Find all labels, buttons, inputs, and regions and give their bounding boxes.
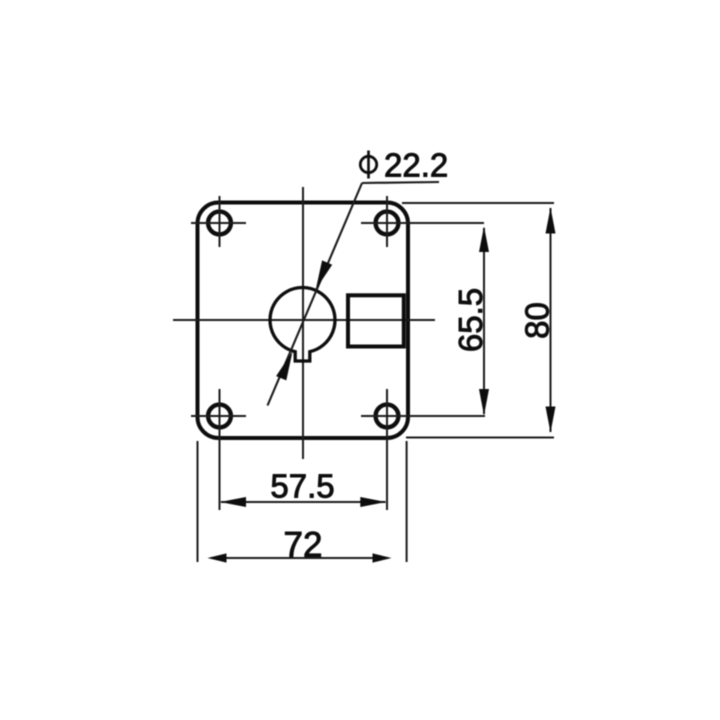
crosshair top-right + extension line for 65.5: [361, 222, 484, 224]
dimension 57.5 line: [221, 501, 386, 503]
crosshair bottom-left + extension line for 57.5: [191, 415, 246, 417]
mounting hole top-left: [208, 212, 231, 235]
dimension 72 line: [211, 557, 388, 559]
arrow 57.5 right: [360, 497, 386, 507]
dimension 80 line: [550, 208, 552, 432]
svg-text:65.5: 65.5: [452, 288, 489, 352]
extension line 72 right: [406, 441, 408, 562]
mounting hole bottom-left: [208, 405, 231, 428]
mounting hole top-right: [376, 212, 399, 235]
crosshair bottom-right + extension lines: [361, 415, 485, 417]
main hole phi 22.2 with keyway: [270, 288, 335, 361]
mounting hole bottom-right: [376, 405, 399, 428]
arrow 65.5 up: [479, 227, 489, 253]
small rectangle window: [348, 295, 404, 346]
arrow 65.5 down: [479, 389, 489, 416]
arrow 80 up: [546, 208, 556, 234]
arrowhead upper (points to circle top): [316, 260, 332, 289]
svg-text:72: 72: [284, 526, 323, 565]
svg-text:22.2: 22.2: [384, 147, 448, 184]
arrow 57.5 left: [220, 497, 246, 507]
vertical centerline: [302, 187, 304, 459]
crosshair top-left: [191, 222, 246, 224]
extension line 72 left: [197, 441, 199, 562]
dimension 65.5 line: [483, 228, 485, 414]
horizontal centerline: [173, 319, 435, 321]
leader shoulder: [362, 182, 439, 183]
arrow 80 down: [546, 407, 556, 433]
svg-text:80: 80: [519, 302, 556, 339]
extension line 80 bottom: [406, 437, 554, 439]
arrow 72 left: [208, 553, 227, 562]
arrowhead lower (points to circle bottom): [276, 352, 292, 381]
diameter leader line: [268, 183, 363, 406]
label phi symbol: [360, 156, 376, 172]
svg-text:57.5: 57.5: [270, 468, 334, 505]
arrow 72 right: [373, 553, 392, 562]
plate outline: [198, 203, 409, 439]
extension line 80 top: [402, 202, 554, 204]
